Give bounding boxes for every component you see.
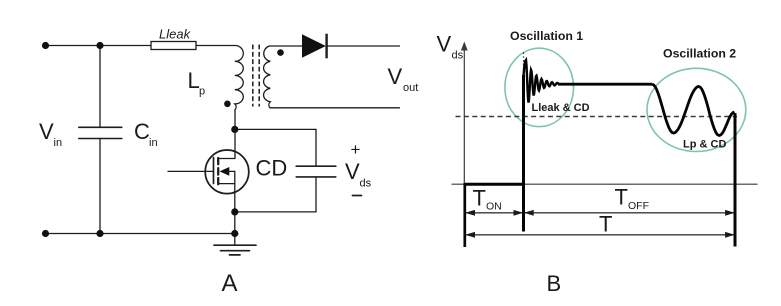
svg-text:T: T: [473, 186, 486, 211]
svg-text:OFF: OFF: [628, 200, 649, 212]
svg-text:+: +: [351, 140, 361, 159]
svg-text:in: in: [54, 137, 63, 149]
svg-text:V: V: [437, 32, 452, 57]
svg-text:in: in: [149, 137, 158, 149]
svg-text:T: T: [615, 185, 628, 210]
svg-text:Lleak: Lleak: [159, 27, 192, 42]
svg-text:B: B: [547, 271, 562, 296]
svg-text:ds: ds: [452, 50, 464, 62]
svg-text:L: L: [188, 68, 200, 93]
svg-text:Lleak & CD: Lleak & CD: [532, 102, 590, 114]
svg-text:Oscillation 2: Oscillation 2: [663, 47, 736, 61]
svg-text:p: p: [199, 86, 205, 98]
svg-text:out: out: [403, 82, 418, 94]
svg-text:Oscillation 1: Oscillation 1: [510, 29, 583, 43]
svg-text:T: T: [599, 212, 612, 237]
svg-text:V: V: [388, 64, 403, 89]
svg-text:ON: ON: [486, 201, 502, 213]
svg-text:V: V: [39, 119, 54, 144]
svg-text:Lp & CD: Lp & CD: [683, 139, 726, 151]
svg-text:V: V: [345, 159, 360, 184]
svg-text:CD: CD: [256, 156, 288, 181]
svg-text:C: C: [134, 119, 150, 144]
svg-text:ds: ds: [360, 178, 372, 190]
svg-text:A: A: [222, 270, 238, 297]
